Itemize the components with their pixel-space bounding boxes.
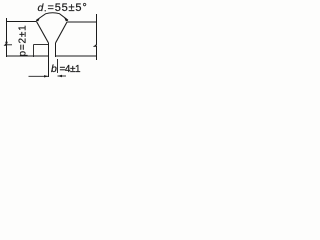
b dimension right arrowhead bbox=[58, 75, 63, 77]
svg-text:=55±5°: =55±5° bbox=[48, 2, 88, 14]
svg-text:p=2±1: p=2±1 bbox=[18, 24, 29, 56]
b dimension left arrowhead bbox=[44, 75, 49, 77]
left break jog arrowhead bbox=[5, 42, 8, 46]
p dimension line bbox=[33, 45, 35, 58]
left plate top surface bbox=[7, 21, 37, 23]
right break line bbox=[95, 14, 97, 60]
p dimension extension line bbox=[34, 44, 49, 46]
angle arc right arrowhead bbox=[64, 17, 68, 21]
right plate bottom surface bbox=[56, 55, 98, 57]
angle dimension arc bbox=[36, 13, 68, 21]
right b extension line bbox=[57, 59, 59, 73]
svg-text:b: b bbox=[51, 63, 57, 75]
right break line jog tick bbox=[94, 45, 97, 46]
left root face and b extension line bbox=[48, 43, 50, 77]
left groove face bbox=[37, 22, 49, 44]
right groove face bbox=[56, 22, 68, 43]
left break line bbox=[5, 18, 7, 57]
angle arc left arrowhead bbox=[36, 17, 40, 21]
groove angle label tail dot bbox=[45, 10, 46, 11]
svg-text:d: d bbox=[38, 2, 45, 14]
right plate top surface bbox=[67, 21, 97, 23]
left plate bottom surface bbox=[6, 55, 49, 57]
svg-text:=4±1: =4±1 bbox=[60, 64, 82, 75]
left break line jog stub bbox=[7, 44, 13, 46]
b dimension line left segment bbox=[29, 75, 49, 77]
right root face bbox=[55, 43, 57, 57]
b dimension line right segment bbox=[58, 75, 67, 77]
